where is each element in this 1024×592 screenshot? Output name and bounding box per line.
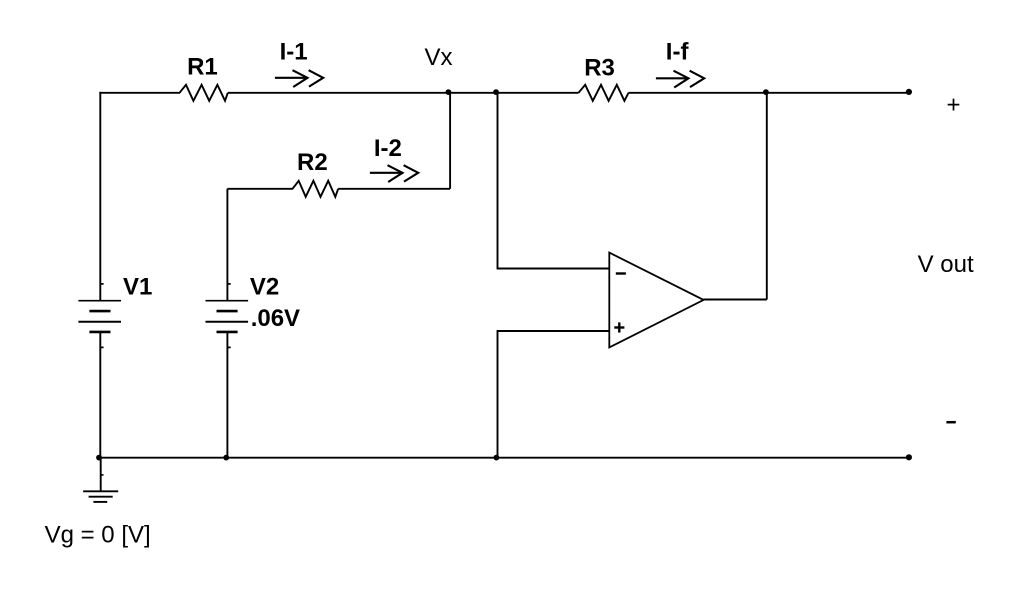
battery V2 (206, 284, 249, 348)
svg-text:I-2: I-2 (374, 135, 402, 162)
svg-text:R3: R3 (584, 55, 615, 82)
wire V2 vertical bottom (226, 332, 228, 459)
svg-text:+: + (946, 92, 960, 119)
svg-text:I-f: I-f (666, 39, 690, 66)
current arrow I-f (656, 71, 704, 88)
svg-text:Vx: Vx (425, 44, 453, 71)
node ground junction V1 (96, 455, 102, 461)
wire top right horizontal (629, 92, 909, 94)
wire feedback vertical (766, 93, 768, 300)
node Vx (446, 89, 452, 95)
op-amp U1 (609, 253, 703, 348)
svg-text:R2: R2 (297, 149, 328, 176)
svg-text:Vg = 0 [V]: Vg = 0 [V] (45, 522, 151, 549)
node feedback junction (763, 89, 769, 95)
svg-text:R1: R1 (187, 54, 218, 81)
svg-text:I-1: I-1 (280, 38, 308, 65)
node inverting branch (493, 89, 499, 95)
node bottom terminal - (906, 454, 912, 460)
battery V1 (78, 284, 121, 348)
node ground junction op-amp (494, 455, 500, 461)
wire inverting vertical (497, 93, 499, 269)
wire Vx vertical (449, 93, 451, 189)
label - terminal (946, 421, 955, 424)
svg-text:V1: V1 (123, 274, 152, 301)
wire R2 left horizontal (227, 188, 293, 190)
current arrow I-2 (370, 165, 418, 182)
wire op-amp output (704, 299, 767, 301)
wire top-left horizontal (99, 92, 180, 94)
wire top middle horizontal (228, 92, 579, 94)
wire inverting input horizontal (497, 268, 610, 270)
wire V1 vertical top (99, 92, 101, 301)
wire R2 right horizontal (338, 188, 450, 190)
wire non-inverting vertical (497, 331, 499, 459)
wire non-inverting input horizontal (497, 330, 610, 332)
resistor R3 (579, 85, 629, 101)
resistor R1 (180, 85, 228, 101)
svg-text:.06V: .06V (251, 305, 300, 332)
resistor R2 (293, 181, 339, 197)
wire V2 vertical top (226, 189, 228, 301)
wire V1 vertical bottom (99, 332, 101, 459)
ground (83, 458, 118, 502)
svg-text:V2: V2 (250, 274, 279, 301)
svg-text:V out: V out (918, 251, 974, 278)
node output terminal + (906, 89, 912, 95)
current arrow I-1 (275, 70, 323, 87)
node ground junction V2 (223, 455, 229, 461)
wire bottom horizontal (99, 457, 909, 459)
